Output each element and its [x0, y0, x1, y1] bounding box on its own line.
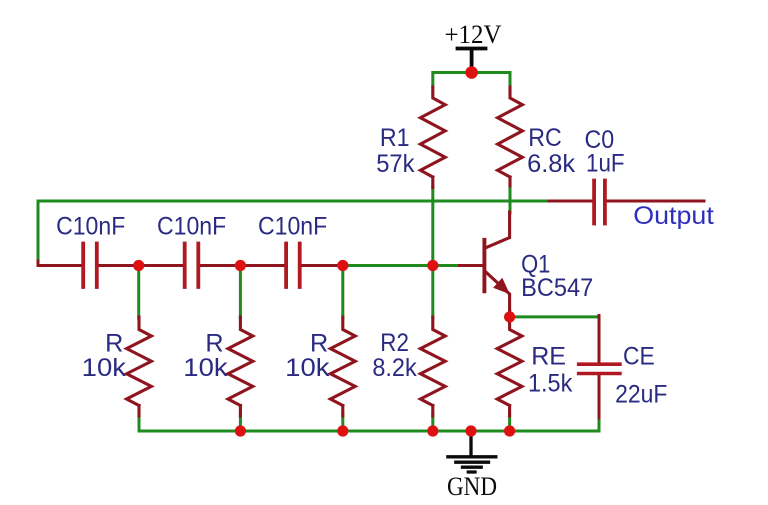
wire: RC bottom lead through crossing [509, 185, 512, 213]
resistor R2 8.2k [420, 317, 445, 416]
svg-text:GND: GND [447, 472, 497, 501]
capacitor C 10nF #2 [185, 244, 199, 288]
resistor R 10k #2 [228, 317, 253, 416]
svg-text:10k: 10k [183, 354, 228, 382]
svg-text:BC547: BC547 [521, 274, 593, 302]
wire [239, 415, 242, 431]
wire [341, 415, 344, 431]
node: rail junction under R#3 [337, 425, 348, 436]
wire: main feedback/output line y=201 (green part) [38, 201, 549, 263]
svg-text:+12V: +12V [445, 20, 502, 49]
wire: ladder node3 down to R 10k #3 [341, 266, 344, 319]
wire: collector vertical + diagonal to base bar [485, 212, 509, 248]
svg-text:R1: R1 [380, 124, 410, 152]
svg-text:8.2k: 8.2k [372, 354, 417, 382]
node: rail junction at GND [465, 425, 476, 436]
wire: output line red part after C0 [607, 200, 704, 203]
capacitor CE 22uF [579, 364, 620, 373]
node: emitter junction [504, 311, 515, 322]
resistor RE 1.5k [497, 311, 522, 416]
wire: emitter node to CE top [510, 315, 599, 318]
capacitor C 10nF #3 [286, 244, 300, 288]
capacitor C0 1uF [594, 181, 605, 224]
svg-text:10k: 10k [82, 354, 127, 382]
node: ladder junction 3 [337, 260, 348, 271]
resistor R 10k #1 [127, 317, 152, 416]
svg-text:10k: 10k [285, 354, 330, 382]
transistor Q1 emitter arrow [493, 278, 510, 294]
node: +12V junction [465, 66, 478, 79]
wire: ladder node2 down to R 10k #2 [239, 266, 242, 319]
wire: CE bottom green corner to rail [598, 417, 601, 432]
node: rail junction under RE [504, 425, 515, 436]
wire: R1 bottom lead down through crossing to base node [431, 187, 434, 267]
wire: CE bottom red lead [598, 375, 601, 418]
wire: base red lead [460, 264, 483, 267]
resistor R 10k #3 [330, 317, 355, 416]
svg-text:22uF: 22uF [615, 380, 667, 408]
wire: CE top red lead [598, 316, 601, 363]
node: rail junction under R2 [427, 425, 438, 436]
resistor R1 57k [420, 87, 445, 188]
wire: +12V top rail from R1 top to RC top [433, 73, 510, 88]
svg-text:RC: RC [528, 124, 562, 152]
svg-text:Output: Output [633, 202, 714, 230]
wire: R1 bottom short green leads at rail (columns) [138, 415, 141, 431]
node: rail junction under R#2 [235, 425, 246, 436]
wire: bottom ground rail [139, 430, 599, 433]
svg-text:1uF: 1uF [586, 150, 625, 178]
svg-text:6.8k: 6.8k [527, 150, 575, 178]
wire: C1 to node1 [99, 264, 183, 267]
power +12V symbol [458, 49, 486, 68]
wire: left red drop into C ladder [38, 261, 81, 266]
wire: C2 to node2 [200, 264, 284, 267]
node: ladder junction 2 [235, 260, 246, 271]
wire: ladder node3 to base node (green part of y=265.5 line) [343, 264, 460, 267]
wire [431, 415, 434, 431]
wire [508, 415, 511, 431]
svg-text:C10nF: C10nF [258, 213, 327, 241]
svg-text:CE: CE [623, 342, 655, 370]
svg-text:C10nF: C10nF [56, 213, 125, 241]
wire: ladder node1 down to R 10k #1 [137, 266, 140, 319]
svg-text:57k: 57k [376, 150, 415, 178]
svg-text:1.5k: 1.5k [528, 369, 573, 397]
ground symbol [448, 431, 496, 472]
svg-text:R2: R2 [380, 329, 409, 357]
wire: emitter diagonal from base bar [485, 272, 509, 313]
svg-text:C10nF: C10nF [157, 213, 226, 241]
resistor RC 6.8k [498, 87, 523, 186]
capacitor C 10nF #1 [83, 244, 97, 288]
node: base junction [427, 260, 438, 271]
svg-text:RE: RE [531, 342, 566, 370]
wire: output line red part before C0 [549, 200, 592, 203]
wire: base node down to R2 top [431, 266, 434, 319]
wire: C3 to node3 [302, 264, 343, 267]
node: ladder junction 1 [133, 260, 144, 271]
transistor Q1 BC547 base bar [482, 240, 486, 291]
